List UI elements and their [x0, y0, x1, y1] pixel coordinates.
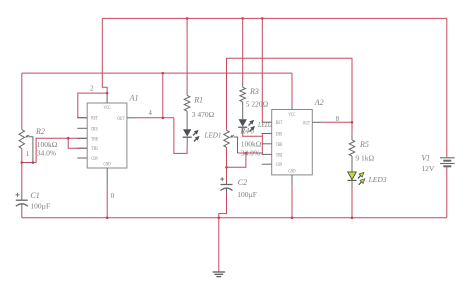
battery V1 [440, 157, 455, 159]
svg-text:3 470Ω: 3 470Ω [192, 110, 215, 119]
svg-text:5 220Ω: 5 220Ω [246, 99, 269, 108]
wire: bottom ground bus [22, 217, 447, 219]
LED LED1 [183, 129, 191, 136]
potentiometer R2 wiper arrow [28, 134, 29, 137]
wire: R4 wiper stub [234, 137, 238, 153]
svg-text:RST: RST [276, 121, 283, 126]
node junction bottom bus / A1 GND [106, 217, 109, 220]
wire: C1 bottom to bus corner [21, 209, 23, 218]
resistor R3 body [240, 87, 246, 102]
svg-text:DIS: DIS [91, 127, 98, 132]
capacitor C2 [226, 181, 228, 185]
svg-text:LED1: LED1 [204, 130, 222, 139]
svg-text:OUT: OUT [117, 117, 124, 122]
svg-text:LED3: LED3 [368, 175, 387, 184]
A1 pin TRI stub [77, 147, 87, 149]
capacitor C1 [21, 191, 23, 201]
node junction R2 wiper tie [32, 161, 35, 164]
wire: net 4 horizontal (A1 OUT to A2 VCC and R2 top) [22, 72, 292, 74]
wire: battery V1 bottom lead [446, 167, 448, 218]
wire: C2 top net horizontal to THR/TRI (net 7) [238, 152, 263, 154]
R3 top stub [242, 81, 244, 87]
wire: R4 top run to A2 OUT (net 8 loop) [227, 58, 353, 130]
LED2 emission arrows [249, 123, 251, 125]
LED1 emission arrows [193, 133, 195, 135]
svg-text:TRI: TRI [91, 147, 98, 152]
node junction R4 bottom / C2 top [225, 166, 228, 169]
op-amp timer A2 body [272, 110, 313, 175]
svg-text:DIS: DIS [276, 133, 283, 138]
wire: A2 GND to bus [291, 186, 293, 218]
wire: R2 bottom to C1 top [21, 149, 23, 191]
wire: earth ground drop [218, 218, 220, 272]
wire: battery V1 top lead [446, 18, 448, 157]
node junction top bus / A2 RST drop [261, 17, 264, 20]
A2 pin RST stub [262, 121, 272, 123]
node junction net4 / A1 OUT drop [162, 72, 165, 75]
wire: LED2 cathode to A2 DIS jog (net 6) [243, 134, 264, 137]
node junction top bus / R3 [241, 17, 244, 20]
svg-text:VCC: VCC [103, 106, 110, 111]
svg-text:R4: R4 [239, 126, 249, 135]
potentiometer R4 wiper arrow [233, 134, 234, 137]
node junction THR/TRI tie A1 [67, 137, 70, 140]
svg-text:GND: GND [288, 169, 296, 174]
wire: top bus drop to A1 VCC jog (net 2) [102, 18, 107, 93]
svg-text:100kΩ: 100kΩ [37, 140, 58, 149]
A2 GND stub [291, 175, 293, 186]
svg-text:OUT: OUT [303, 121, 310, 126]
resistor R1 body [184, 95, 190, 111]
A1 OUT stub [127, 117, 137, 119]
wire: R2 wiper stub [29, 137, 33, 163]
svg-text:0: 0 [111, 192, 115, 200]
A2 OUT stub [312, 121, 322, 123]
wire: A1 TRI tie [68, 138, 87, 148]
svg-text:R1: R1 [193, 95, 203, 104]
svg-text:9 1kΩ: 9 1kΩ [355, 153, 374, 162]
wire: R5 top lead [351, 122, 353, 133]
svg-text:CON: CON [276, 163, 283, 168]
wire: R4 bottom to C2 [226, 147, 228, 181]
A1 pin RST stub [77, 117, 87, 119]
C1 plus sign [16, 194, 20, 196]
node junction top bus / R1 [186, 17, 189, 20]
node junction bottom bus / LED3 [351, 217, 354, 220]
wire: R3 top lead from bus [242, 18, 244, 81]
A1 pin CON stub [77, 157, 87, 159]
svg-text:12V: 12V [421, 164, 435, 173]
svg-text:1: 1 [26, 150, 30, 158]
LED3 emission arrows [358, 176, 361, 179]
potentiometer R2 body [19, 130, 24, 149]
A2 pin DIS stub [262, 133, 272, 135]
A2 VCC stub [291, 107, 293, 110]
wire: A2 THR/TRI tie vertical [261, 136, 263, 154]
wire: R1 lower lead [186, 111, 188, 129]
svg-text:A1: A1 [129, 94, 139, 103]
node junction C2 net [245, 152, 248, 155]
svg-text:R3: R3 [249, 87, 259, 96]
svg-text:GND: GND [103, 162, 111, 167]
svg-text:V1: V1 [421, 153, 430, 162]
LED LED2 [239, 119, 247, 126]
wire: A1 RST tie (net 2) [78, 93, 107, 118]
A2 pin THR stub [262, 143, 272, 145]
node junction bottom bus / A2 GND [291, 217, 294, 220]
svg-text:C2: C2 [238, 178, 247, 187]
wire: LED3 to bottom bus [351, 190, 353, 218]
wire: R2 bottom junction bar [22, 162, 36, 164]
svg-text:TRI: TRI [276, 153, 283, 158]
node junction A1 OUT [162, 117, 165, 120]
svg-text:34.0%: 34.0% [37, 149, 56, 158]
svg-text:2: 2 [90, 85, 94, 93]
svg-text:R2: R2 [35, 127, 45, 136]
wire: A1 GND to ground bus (net 0) [106, 185, 108, 218]
node junction R2 bottom / C1 [21, 161, 24, 164]
svg-text:34.0%: 34.0% [241, 148, 260, 157]
C2 plus sign [220, 178, 224, 180]
wire: A1 OUT down to LED1 cathode [174, 118, 187, 154]
wire: C2 bottom jog to ground node [219, 194, 227, 218]
svg-text:CON: CON [91, 157, 98, 162]
node junction A1 VCC/RST tie [106, 92, 109, 95]
ground symbol [213, 271, 226, 273]
wire: R3 lower lead [242, 102, 244, 119]
R5 top stub [351, 134, 353, 140]
A1 GND stub [106, 168, 108, 185]
A2 pin TRI stub [262, 153, 272, 155]
wire: V+ top bus [102, 17, 447, 19]
potentiometer R4 body [224, 130, 229, 147]
wire: net4 drop to A1 OUT [162, 73, 164, 118]
svg-text:R5: R5 [359, 140, 369, 149]
A2 pin CON stub [262, 163, 272, 165]
svg-text:100µF: 100µF [237, 190, 257, 199]
wire: A2 VCC feed from net4 [291, 73, 293, 106]
resistor R5 body [349, 140, 355, 156]
node junction bottom bus / earth ground [218, 217, 221, 220]
A1 VCC stub [106, 93, 108, 103]
node junction A2 OUT / R5 [351, 121, 354, 124]
svg-text:RST: RST [91, 117, 98, 122]
svg-text:100µF: 100µF [30, 201, 50, 210]
svg-text:8: 8 [336, 115, 340, 123]
svg-text:100kΩ: 100kΩ [241, 140, 262, 149]
svg-text:THR: THR [276, 143, 283, 148]
wire: C2 net drop [227, 153, 246, 167]
A1 pin DIS stub [77, 127, 87, 129]
op-amp timer A1 body [87, 103, 127, 168]
wire: A2 RST drop from top bus [262, 18, 263, 122]
wire: R1 top lead from bus [186, 18, 188, 88]
LED LED3 green [348, 172, 357, 180]
wire: R2 top lead from net4 [21, 73, 23, 129]
svg-text:C1: C1 [30, 191, 39, 200]
A1 pin THR stub [77, 137, 87, 139]
svg-text:THR: THR [91, 137, 98, 142]
wire: R2 net to A1 THR (net 1) [36, 138, 87, 162]
wire: R5 lower lead [351, 156, 353, 172]
wire: A2 OUT run (net 8) [322, 121, 352, 123]
wire: A1 OUT run [137, 117, 174, 119]
R1 top stub [186, 89, 188, 96]
svg-text:4: 4 [148, 109, 152, 117]
svg-text:A2: A2 [314, 98, 324, 107]
svg-text:VCC: VCC [288, 113, 295, 118]
